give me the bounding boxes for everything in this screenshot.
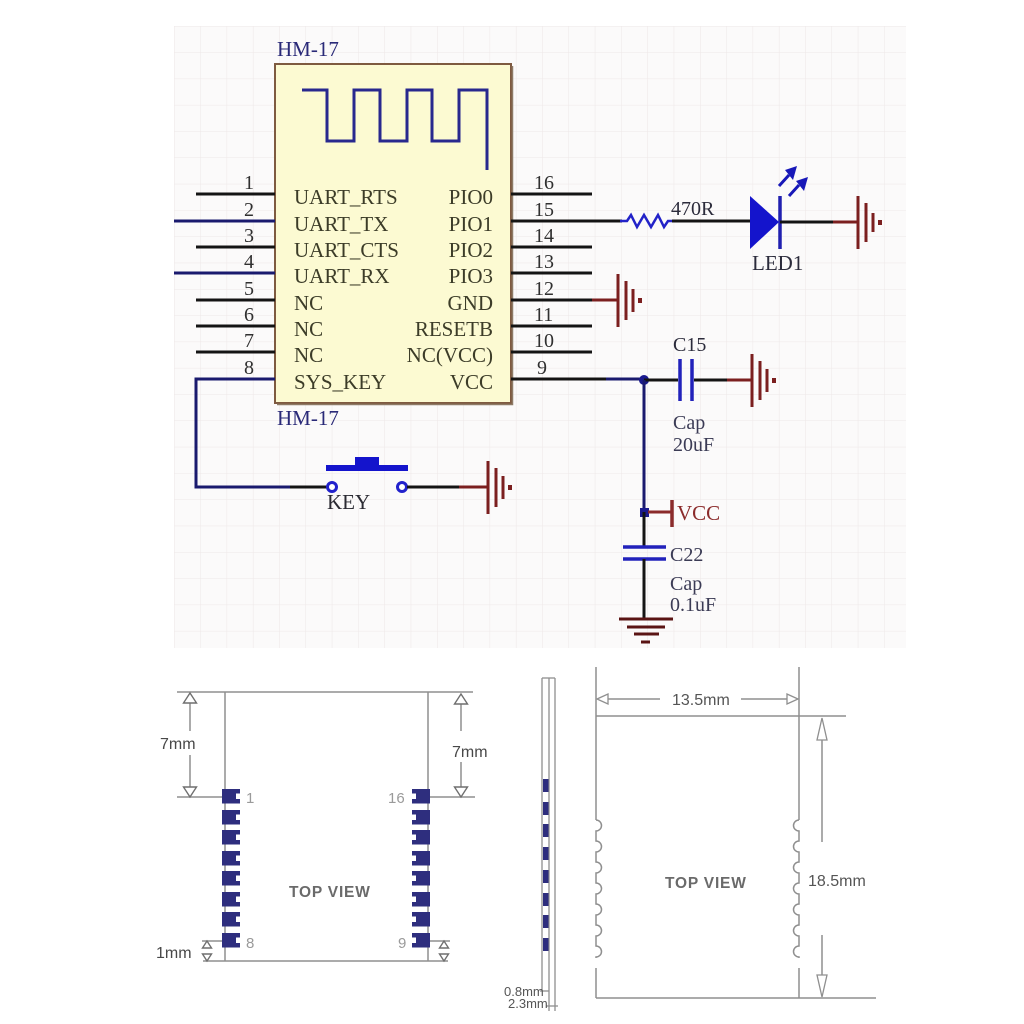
wire junction to C15 xyxy=(644,379,678,382)
svg-text:12: 12 xyxy=(534,278,554,300)
earth ground (C22) xyxy=(619,619,673,642)
ground (LED) xyxy=(858,196,880,249)
7mm dimension line left xyxy=(189,703,191,731)
wire resistor to LED xyxy=(672,220,750,223)
svg-text:TOP VIEW: TOP VIEW xyxy=(289,884,371,901)
top reference line xyxy=(177,691,473,693)
svg-text:UART_CTS: UART_CTS xyxy=(294,238,399,262)
svg-text:1: 1 xyxy=(244,172,254,194)
svg-text:14: 14 xyxy=(534,225,554,247)
dimension arrowheads (left drawing) xyxy=(184,693,468,961)
capacitor C15 xyxy=(673,334,714,456)
wire pin4 UART_RX xyxy=(174,272,275,275)
pin name texts inside IC xyxy=(294,185,493,394)
wire pin8 SYS_KEY xyxy=(196,379,327,487)
svg-text:UART_RX: UART_RX xyxy=(294,264,390,288)
wire junction down to VCC node xyxy=(643,380,646,512)
VCC power symbol xyxy=(648,500,720,527)
module left edge xyxy=(224,692,226,961)
schematic grid background xyxy=(174,26,906,648)
svg-text:2.3mm: 2.3mm xyxy=(508,996,548,1011)
wire pin12 GND xyxy=(511,299,592,302)
svg-text:C22: C22 xyxy=(670,544,703,566)
wire pin15 to resistor xyxy=(592,220,622,223)
svg-text:7mm: 7mm xyxy=(452,744,488,761)
svg-text:18.5mm: 18.5mm xyxy=(808,873,866,890)
wire pin16 PIO0 xyxy=(511,193,592,196)
svg-text:RESETB: RESETB xyxy=(415,317,493,341)
wire pin6 NC xyxy=(196,325,275,328)
svg-text:8: 8 xyxy=(246,935,254,952)
svg-text:9: 9 xyxy=(537,357,547,379)
castellation wavy right xyxy=(794,820,799,958)
svg-text:SYS_KEY: SYS_KEY xyxy=(294,370,386,394)
svg-text:9: 9 xyxy=(398,935,406,952)
18.5mm dimension line lower xyxy=(821,935,823,996)
svg-text:10: 10 xyxy=(534,330,554,352)
svg-text:NC(VCC): NC(VCC) xyxy=(407,343,493,367)
bottom reference line xyxy=(203,960,448,962)
wire pin1 UART_RTS xyxy=(196,193,275,196)
capacitor C22 xyxy=(623,544,716,616)
waveform symbol inside IC xyxy=(302,90,487,170)
svg-text:1: 1 xyxy=(246,790,254,807)
svg-text:NC: NC xyxy=(294,317,323,341)
castellation wavy left xyxy=(596,820,602,958)
svg-text:NC: NC xyxy=(294,291,323,315)
svg-text:PIO2: PIO2 xyxy=(449,238,493,262)
svg-text:VCC: VCC xyxy=(677,501,720,525)
7mm dimension line right xyxy=(460,703,462,731)
junction node VCC xyxy=(640,508,649,517)
module right edge xyxy=(427,692,429,961)
wire pin14 PIO2 xyxy=(511,246,592,249)
switch KEY xyxy=(326,457,408,514)
svg-text:4: 4 xyxy=(244,251,254,273)
pads left column (pins 1-8) xyxy=(222,789,240,948)
13.5mm dimension arrows xyxy=(600,698,660,700)
svg-text:3: 3 xyxy=(244,225,254,247)
pad notches right xyxy=(411,794,416,944)
wire C15 to ground xyxy=(694,379,751,382)
svg-text:0.1uF: 0.1uF xyxy=(670,594,716,616)
svg-text:UART_TX: UART_TX xyxy=(294,212,388,236)
pad1 reference tick left xyxy=(177,796,224,798)
wire pin3 UART_CTS xyxy=(196,246,275,249)
svg-text:1mm: 1mm xyxy=(156,945,192,962)
svg-text:TOP VIEW: TOP VIEW xyxy=(665,875,747,892)
module left edge xyxy=(595,667,597,820)
wire KEY to ground xyxy=(407,486,487,489)
ground (C15) xyxy=(752,354,774,407)
2.3mm bracket xyxy=(546,1005,558,1007)
svg-text:NC: NC xyxy=(294,343,323,367)
svg-text:20uF: 20uF xyxy=(673,434,714,456)
svg-text:6: 6 xyxy=(244,304,254,326)
pad notches left xyxy=(236,794,241,944)
svg-text:16: 16 xyxy=(388,790,405,807)
svg-text:13.5mm: 13.5mm xyxy=(672,692,730,709)
svg-text:GND: GND xyxy=(448,291,494,315)
pad1 reference tick right xyxy=(430,796,475,798)
svg-text:5: 5 xyxy=(244,278,254,300)
svg-text:VCC: VCC xyxy=(450,370,493,394)
wire VCC node to C22 xyxy=(643,512,646,546)
svg-text:PIO0: PIO0 xyxy=(449,185,493,209)
pin numbers 1-8 (left) xyxy=(244,172,254,379)
wire pin15 PIO1 xyxy=(511,220,592,223)
module right edge xyxy=(798,667,800,820)
svg-text:Cap: Cap xyxy=(670,573,702,595)
resistor 470R xyxy=(620,198,715,227)
svg-text:Cap: Cap xyxy=(673,412,705,434)
pcb side outline xyxy=(541,678,543,991)
svg-text:7: 7 xyxy=(244,330,254,352)
pad8 tick right xyxy=(428,940,450,942)
wire pin7 NC xyxy=(196,351,275,354)
dimension arrowheads (right drawing) xyxy=(597,694,827,997)
wire pin5 NC xyxy=(196,299,275,302)
top edge line xyxy=(596,715,846,717)
svg-text:PIO3: PIO3 xyxy=(449,264,493,288)
junction node pin9 xyxy=(639,375,649,385)
wire pin11 RESETB xyxy=(511,325,592,328)
bottom edge line xyxy=(596,997,876,999)
svg-text:UART_RTS: UART_RTS xyxy=(294,185,398,209)
svg-text:470R: 470R xyxy=(671,198,715,220)
wire pin10 NC(VCC) xyxy=(511,351,592,354)
18.5mm dimension line upper xyxy=(821,722,823,842)
wire pin2 UART_TX xyxy=(174,220,275,223)
wire pin13 PIO3 xyxy=(511,272,592,275)
wire LED to ground xyxy=(780,221,857,224)
pads right column (pins 16-9) xyxy=(412,789,430,948)
ground (pin12 GND) xyxy=(618,274,640,327)
svg-text:KEY: KEY xyxy=(327,490,370,514)
wire C22 to earth ground xyxy=(643,559,646,619)
pin numbers 16-9 (right) xyxy=(534,172,554,379)
svg-text:11: 11 xyxy=(534,304,553,326)
svg-text:15: 15 xyxy=(534,199,554,221)
svg-text:LED1: LED1 xyxy=(752,251,803,275)
svg-text:16: 16 xyxy=(534,172,554,194)
svg-text:8: 8 xyxy=(244,357,254,379)
wire pin9 to junction xyxy=(592,378,644,381)
svg-text:HM-17: HM-17 xyxy=(277,37,339,61)
IC U1 HM-17 body xyxy=(275,64,513,405)
LED LED1 xyxy=(750,166,808,275)
svg-text:13: 13 xyxy=(534,251,554,273)
wire pin9 VCC xyxy=(511,378,592,381)
side view pads xyxy=(543,779,549,951)
svg-text:PIO1: PIO1 xyxy=(449,212,493,236)
svg-text:C15: C15 xyxy=(673,334,706,356)
svg-text:7mm: 7mm xyxy=(160,736,196,753)
ground (KEY) xyxy=(488,461,510,514)
0.8mm tick xyxy=(540,990,549,992)
wire pin12 to ground xyxy=(592,299,617,302)
svg-text:2: 2 xyxy=(244,199,254,221)
svg-text:HM-17: HM-17 xyxy=(277,406,339,430)
pad8 tick left xyxy=(202,940,224,942)
